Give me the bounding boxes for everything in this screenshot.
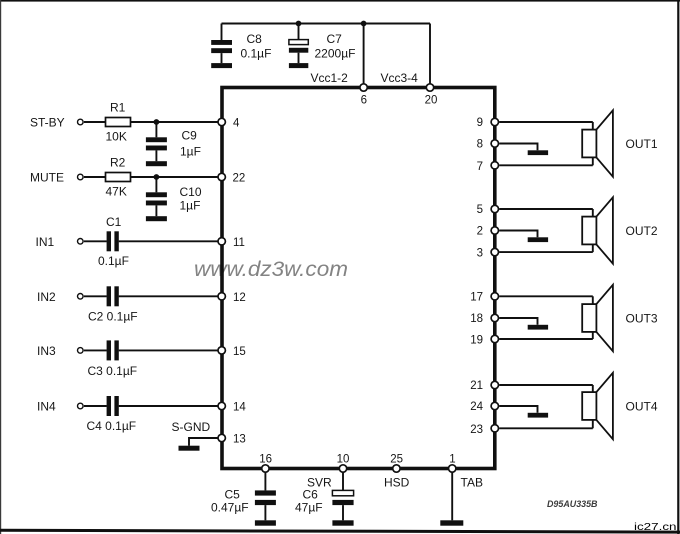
wire R1 to pin 4 [131,121,220,123]
wire speaker LS1 terminal link [592,122,594,165]
capacitor C6 [295,469,354,521]
IC U1 body [222,88,495,469]
svg-text:2: 2 [477,226,483,238]
svg-text:C8: C8 [247,32,263,46]
svg-text:HSD: HSD [384,475,410,489]
wire MUTE to R2 [84,176,106,178]
pin 12 [218,292,246,304]
capacitor C8 [211,24,271,64]
svg-text:R1: R1 [110,101,126,115]
svg-text:4: 4 [233,118,240,130]
pin 15 [218,346,246,358]
ground (C8) [211,63,232,68]
svg-text:ic27.cn: ic27.cn [634,522,677,533]
svg-text:OUT1: OUT1 [626,137,658,151]
svg-text:10K: 10K [106,130,127,144]
wire pin 23 to speaker LS4 - [499,427,593,429]
svg-text:C5: C5 [225,488,241,502]
pin 6 [360,84,367,107]
resistor R1 [106,101,131,144]
wire C1 to pin 11 [119,240,219,242]
wire pin 3 to speaker LS2 - [499,251,593,253]
wire C3 to pin 15 [119,349,219,351]
pin 21 [470,380,498,392]
svg-text:23: 23 [470,424,483,436]
wire pin 18 to ground [499,318,537,325]
pin 18 [470,313,498,325]
pin 7 [477,161,499,173]
pin 10 [337,454,350,473]
pin 23 [470,424,498,436]
terminal ST-BY [78,119,84,125]
svg-text:C7: C7 [327,32,343,46]
svg-text:C6: C6 [303,488,319,502]
svg-text:20: 20 [425,95,438,107]
capacitor C1 [98,215,129,268]
speaker LS1 [582,110,613,176]
svg-text:0.1µF: 0.1µF [241,47,272,61]
svg-text:S-GND: S-GND [172,420,211,434]
pin 25 [390,454,403,473]
wire pin 17 to speaker LS3 + [499,295,593,297]
svg-text:Vcc1-2: Vcc1-2 [311,71,349,85]
junction on Vcc rail at pin 6 drop [361,21,367,27]
wire pin 21 to speaker LS4 + [499,384,593,386]
ground (C7) [289,63,308,68]
svg-text:OUT3: OUT3 [626,311,658,325]
svg-text:IN4: IN4 [37,400,56,414]
wire pin 7 to speaker LS1 - [499,164,593,166]
svg-text:0.47µF: 0.47µF [211,501,249,515]
svg-text:22: 22 [233,173,246,185]
svg-text:C10: C10 [180,185,202,199]
wire pin 13 to ground [189,438,222,446]
wire to pin 6 [363,24,365,88]
wire speaker LS4 terminal link [592,385,594,428]
pin 17 [470,291,498,303]
ground (OUT3) [528,325,548,330]
wire pin 19 to speaker LS3 - [499,338,593,340]
svg-text:8: 8 [477,139,483,151]
terminal MUTE [78,174,84,180]
capacitor C5 [211,469,276,521]
svg-text:17: 17 [470,291,483,303]
ground (C5) [255,520,276,525]
ground (C10) [146,216,167,221]
wire ST-BY to R1 [84,121,106,123]
svg-text:IN3: IN3 [37,344,56,358]
svg-text:47K: 47K [106,185,127,199]
pin 2 [477,226,499,238]
svg-text:19: 19 [470,335,483,347]
svg-text:16: 16 [259,454,272,466]
speaker LS2 [582,197,613,263]
terminal IN3 [78,348,84,354]
wire IN4 to C4 [84,405,107,407]
terminal IN2 [78,294,84,300]
junction on Vcc rail at C7 [296,21,302,27]
ground (S-GND) [179,446,200,451]
wire IN1 to C1 [84,240,107,242]
svg-text:47µF: 47µF [295,501,323,515]
resistor R2 [106,156,131,199]
wire pin 24 to ground [499,406,537,413]
speaker LS3 [582,285,613,351]
pin 8 [477,139,499,151]
ground (TAB) [440,520,463,525]
ground (C9) [146,161,167,166]
svg-text:TAB: TAB [461,475,483,489]
svg-text:1µF: 1µF [180,145,201,159]
terminal IN4 [78,403,84,409]
svg-text:C3 0.1µF: C3 0.1µF [88,364,138,378]
ground (C6) [332,520,353,525]
speaker LS4 [582,373,613,439]
pin 24 [470,401,498,413]
pin 19 [470,335,498,347]
svg-text:1: 1 [449,454,455,466]
svg-text:3: 3 [477,248,483,260]
ground (OUT4) [528,413,548,418]
pin 3 [477,248,499,260]
wire R2 to pin 22 [131,176,220,178]
wire C4 to pin 14 [119,405,219,407]
svg-text:OUT2: OUT2 [626,224,658,238]
wire speaker LS2 terminal link [592,209,594,252]
svg-text:24: 24 [470,401,483,413]
svg-text:11: 11 [233,237,245,249]
svg-text:ST-BY: ST-BY [30,116,65,130]
wire to pin 20 [429,24,431,88]
pin 11 [218,237,245,249]
svg-text:www.dz3w.com: www.dz3w.com [194,258,348,281]
pin 4 [218,118,240,130]
svg-text:0.1µF: 0.1µF [98,254,129,268]
wire IN2 to C2 [84,295,107,297]
svg-text:5: 5 [477,204,483,216]
wire C2 to pin 12 [119,295,219,297]
svg-text:14: 14 [233,402,246,414]
svg-text:IN1: IN1 [36,235,55,249]
capacitor C2 [88,286,138,323]
ground (OUT2) [528,237,548,242]
svg-text:D95AU335B: D95AU335B [547,499,598,509]
wire Vcc top rail [222,23,431,25]
svg-text:12: 12 [233,292,246,304]
junction node ST-BY/C9 [154,119,160,125]
svg-text:15: 15 [233,346,246,358]
pin 14 [218,402,246,414]
pin 20 [425,84,438,107]
pin 9 [477,117,499,129]
svg-text:C1: C1 [106,215,122,229]
capacitor C10 [146,177,202,216]
capacitor C3 [88,340,138,378]
wire pin 9 to speaker LS1 + [499,121,593,123]
capacitor C4 [87,396,137,433]
svg-text:C9: C9 [182,129,198,143]
svg-text:18: 18 [470,313,483,325]
svg-text:2200µF: 2200µF [315,47,356,61]
svg-text:C4 0.1µF: C4 0.1µF [87,419,137,433]
svg-text:1µF: 1µF [180,199,201,213]
wire pin 1 to ground [451,469,453,521]
junction node MUTE/C10 [154,174,160,180]
wire pin 2 to ground [499,231,537,238]
svg-text:IN2: IN2 [37,290,56,304]
pin 13 [218,434,246,446]
wire speaker LS3 terminal link [592,296,594,339]
terminal IN1 [78,239,84,245]
svg-text:13: 13 [233,434,246,446]
svg-text:R2: R2 [110,156,126,170]
svg-text:21: 21 [470,380,483,392]
pin 5 [477,204,499,216]
svg-text:MUTE: MUTE [30,171,64,185]
svg-text:C2 0.1µF: C2 0.1µF [88,310,138,324]
svg-text:6: 6 [361,95,367,107]
svg-text:9: 9 [477,117,483,129]
pin 16 [259,454,272,473]
wire pin 8 to ground [499,144,537,151]
svg-text:Vcc3-4: Vcc3-4 [381,71,419,85]
wire IN3 to C3 [84,349,107,351]
ground (OUT1) [528,150,548,155]
svg-text:25: 25 [390,454,403,466]
wire pin 5 to speaker LS2 + [499,208,593,210]
svg-text:7: 7 [477,161,483,173]
capacitor C9 [146,122,201,161]
svg-text:OUT4: OUT4 [626,399,658,413]
pin 22 [218,173,245,185]
capacitor C7 [289,24,356,64]
svg-text:SVR: SVR [307,475,332,489]
svg-text:10: 10 [337,454,350,466]
pin 1 [449,454,456,473]
